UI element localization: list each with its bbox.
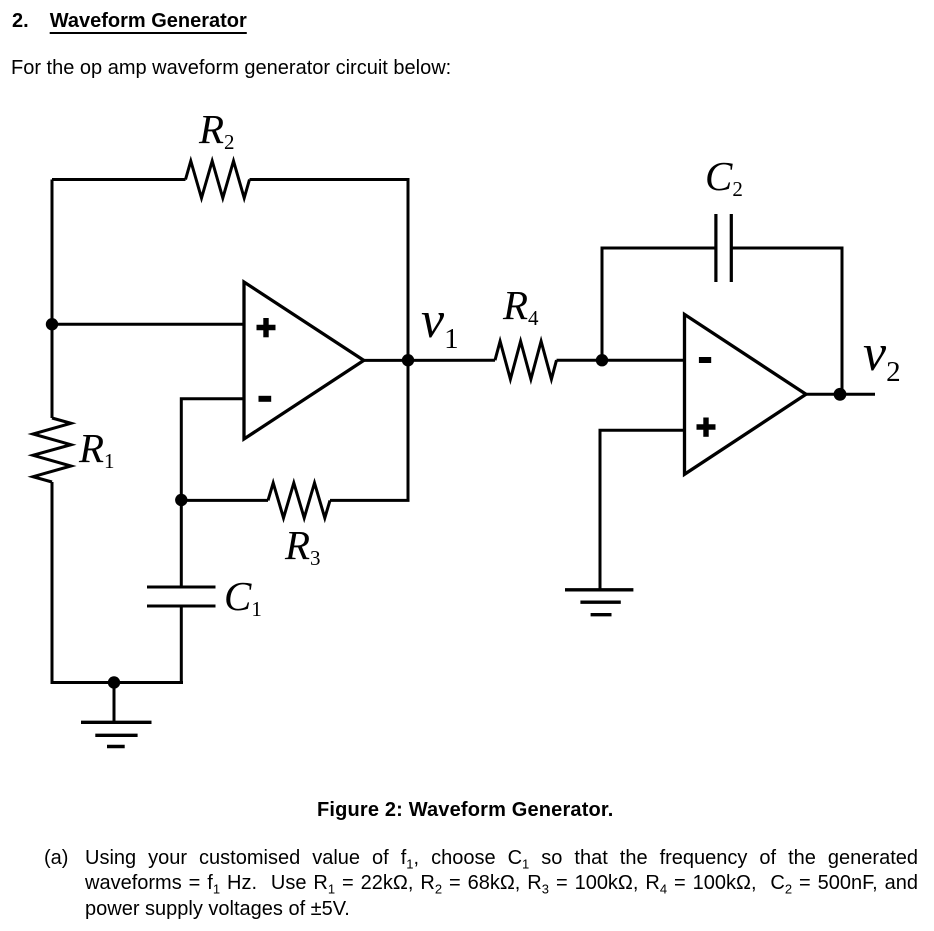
svg-text:v1: v1 bbox=[421, 292, 459, 355]
svg-text:C2: C2 bbox=[705, 153, 743, 201]
wire: noninverting input op2 bbox=[600, 430, 685, 589]
node V1 junction dot bbox=[402, 354, 414, 366]
wire: noninverting input op1 bbox=[52, 323, 244, 326]
op-amp U1 minus sign bbox=[259, 396, 272, 402]
svg-text:v2: v2 bbox=[863, 325, 901, 388]
wire: op2 output bbox=[806, 393, 875, 396]
wire: R3 to right vertical bbox=[330, 360, 408, 500]
node C junction dot (op2 inverting) bbox=[596, 354, 608, 366]
wire: inverting input op2 bbox=[602, 359, 685, 362]
op-amp U2 plus sign bbox=[697, 418, 716, 437]
capacitor C1 bbox=[147, 587, 216, 606]
svg-text:R1: R1 bbox=[78, 425, 115, 473]
ground: op2 noninverting bbox=[565, 590, 633, 615]
op-amp U2 bbox=[685, 314, 807, 474]
capacitor C2 bbox=[716, 214, 731, 282]
resistor R1 bbox=[33, 418, 71, 482]
wire: C2 feedback left riser bbox=[602, 248, 716, 360]
svg-text:C1: C1 bbox=[224, 573, 262, 621]
resistor R2 bbox=[186, 161, 250, 198]
svg-text:R3: R3 bbox=[284, 522, 321, 570]
wire: top left segment bbox=[52, 178, 186, 181]
node A junction dot (left rail / + input) bbox=[46, 318, 58, 330]
node B junction dot (inverting feedback) bbox=[175, 494, 187, 506]
wire: C2 feedback right segment bbox=[731, 248, 842, 394]
wire: R4 to node bbox=[557, 359, 603, 362]
op-amp U1 bbox=[244, 282, 364, 439]
intro line bbox=[11, 57, 451, 80]
wire: inverting input op1 bbox=[181, 399, 244, 587]
ground: bottom left bbox=[81, 722, 152, 746]
resistor R3 bbox=[268, 483, 330, 518]
wire: left vertical lower bbox=[51, 482, 54, 684]
wire: C1 bottom lead bbox=[180, 606, 183, 683]
paragraph (a) bbox=[44, 846, 68, 871]
op-amp U1 plus sign bbox=[257, 318, 276, 337]
figure caption bbox=[317, 799, 613, 822]
wire: op1 output bbox=[364, 359, 495, 362]
op-amp U2 minus sign bbox=[699, 357, 711, 363]
svg-text:R2: R2 bbox=[198, 106, 235, 154]
wire: R3 feedback run bbox=[181, 499, 268, 502]
node V2 junction dot bbox=[834, 388, 847, 401]
resistor R4 bbox=[495, 341, 557, 379]
node D junction dot (ground rail) bbox=[108, 676, 120, 688]
wire: top right segment bbox=[250, 180, 409, 361]
wire: ground stub bottom left bbox=[113, 683, 116, 722]
wire: bottom rail bbox=[52, 681, 183, 684]
heading bbox=[12, 10, 247, 33]
svg-text:R4: R4 bbox=[502, 282, 539, 330]
wire: left vertical upper bbox=[51, 180, 54, 419]
